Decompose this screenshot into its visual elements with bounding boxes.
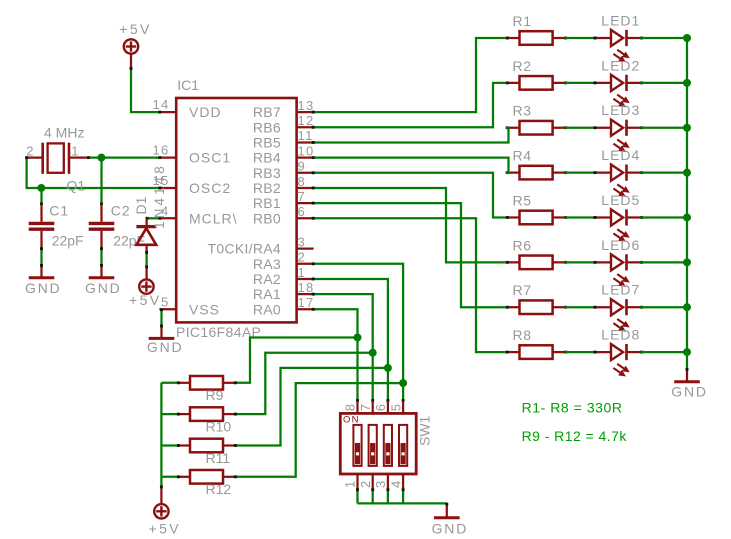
svg-text:R8: R8 bbox=[513, 327, 532, 343]
svg-text:+5V: +5V bbox=[119, 21, 152, 37]
svg-text:2: 2 bbox=[298, 250, 307, 265]
svg-text:1: 1 bbox=[71, 144, 78, 159]
svg-text:R5: R5 bbox=[513, 192, 532, 208]
svg-text:16: 16 bbox=[152, 143, 169, 158]
svg-text:2: 2 bbox=[358, 481, 373, 488]
svg-text:RB5: RB5 bbox=[253, 134, 281, 150]
svg-text:ON: ON bbox=[343, 414, 360, 425]
svg-text:GND: GND bbox=[147, 339, 184, 355]
svg-text:3: 3 bbox=[373, 481, 388, 488]
svg-text:6: 6 bbox=[373, 404, 388, 411]
svg-text:RB7: RB7 bbox=[253, 104, 281, 120]
svg-text:8: 8 bbox=[298, 174, 307, 189]
svg-text:C1: C1 bbox=[49, 202, 69, 218]
svg-text:R4: R4 bbox=[513, 148, 532, 164]
svg-text:R6: R6 bbox=[513, 237, 532, 253]
svg-text:R3: R3 bbox=[513, 103, 532, 119]
svg-text:+5V: +5V bbox=[129, 292, 162, 308]
svg-text:SW1: SW1 bbox=[417, 415, 433, 446]
svg-text:RA0: RA0 bbox=[253, 301, 281, 317]
svg-text:1N4148: 1N4148 bbox=[152, 163, 167, 229]
svg-text:LED4: LED4 bbox=[601, 147, 640, 163]
svg-text:RB0: RB0 bbox=[253, 210, 281, 226]
svg-text:RB2: RB2 bbox=[253, 180, 281, 196]
svg-text:T0CKI/RA4: T0CKI/RA4 bbox=[208, 241, 282, 257]
svg-text:2: 2 bbox=[26, 144, 33, 159]
svg-text:6: 6 bbox=[298, 204, 307, 219]
svg-text:LED6: LED6 bbox=[601, 237, 640, 253]
svg-text:11: 11 bbox=[298, 128, 314, 143]
svg-text:4: 4 bbox=[388, 481, 403, 488]
svg-text:RB1: RB1 bbox=[253, 195, 281, 211]
svg-text:R10: R10 bbox=[206, 418, 232, 434]
svg-text:LED1: LED1 bbox=[601, 12, 640, 28]
svg-text:LED3: LED3 bbox=[601, 102, 640, 118]
svg-text:3: 3 bbox=[298, 234, 307, 249]
svg-text:D1: D1 bbox=[133, 196, 149, 214]
svg-text:7: 7 bbox=[298, 189, 307, 204]
svg-text:R7: R7 bbox=[513, 282, 532, 298]
svg-text:RA1: RA1 bbox=[253, 286, 281, 302]
svg-text:IC1: IC1 bbox=[177, 77, 199, 93]
svg-text:RB3: RB3 bbox=[253, 165, 281, 181]
svg-text:LED8: LED8 bbox=[601, 326, 640, 342]
svg-text:VDD: VDD bbox=[189, 104, 222, 120]
svg-text:5: 5 bbox=[161, 294, 170, 309]
svg-text:RA3: RA3 bbox=[253, 256, 281, 272]
svg-text:MCLR\: MCLR\ bbox=[189, 210, 238, 226]
svg-text:R1: R1 bbox=[513, 13, 532, 29]
svg-text:RB6: RB6 bbox=[253, 119, 281, 135]
svg-text:OSC2: OSC2 bbox=[189, 180, 231, 196]
svg-text:LED5: LED5 bbox=[601, 192, 640, 208]
svg-text:R9: R9 bbox=[206, 387, 224, 403]
svg-text:8: 8 bbox=[343, 404, 358, 411]
svg-text:R12: R12 bbox=[206, 481, 232, 497]
svg-text:OSC1: OSC1 bbox=[189, 150, 231, 166]
svg-text:R1- R8 = 330R: R1- R8 = 330R bbox=[522, 399, 623, 415]
svg-text:VSS: VSS bbox=[189, 301, 220, 317]
svg-text:GND: GND bbox=[432, 521, 469, 537]
svg-text:GND: GND bbox=[671, 384, 708, 400]
svg-text:1: 1 bbox=[343, 481, 358, 488]
svg-text:C2: C2 bbox=[111, 202, 131, 218]
svg-text:R11: R11 bbox=[206, 450, 231, 466]
svg-text:R2: R2 bbox=[513, 58, 532, 74]
svg-text:Q1: Q1 bbox=[67, 178, 86, 194]
svg-text:14: 14 bbox=[152, 97, 169, 112]
svg-text:R9 - R12 = 4.7k: R9 - R12 = 4.7k bbox=[522, 428, 628, 444]
svg-text:1: 1 bbox=[298, 265, 307, 280]
svg-text:RA2: RA2 bbox=[253, 271, 281, 287]
svg-text:4 MHz: 4 MHz bbox=[44, 125, 84, 141]
svg-text:LED2: LED2 bbox=[601, 57, 640, 73]
svg-text:5: 5 bbox=[388, 404, 403, 411]
svg-text:RB4: RB4 bbox=[253, 150, 281, 166]
svg-text:9: 9 bbox=[298, 159, 307, 174]
svg-text:LED7: LED7 bbox=[601, 282, 640, 298]
svg-text:7: 7 bbox=[358, 404, 373, 411]
svg-text:+5V: +5V bbox=[149, 521, 182, 537]
svg-text:GND: GND bbox=[85, 280, 122, 296]
svg-text:PIC16F84AP: PIC16F84AP bbox=[176, 324, 261, 340]
svg-text:GND: GND bbox=[25, 280, 62, 296]
svg-text:22pF: 22pF bbox=[52, 233, 84, 249]
